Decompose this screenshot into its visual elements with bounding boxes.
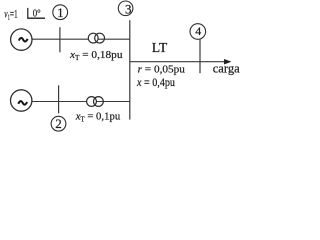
bus bar node 3 (129, 20, 131, 119)
bus bar node 1 (59, 27, 61, 52)
svg-text:3: 3 (125, 1, 132, 16)
svg-text:LT: LT (152, 41, 168, 56)
generator G1 circle (11, 29, 32, 50)
svg-text:r = 0,05pu: r = 0,05pu (138, 64, 186, 76)
svg-text:x = 0,4pu: x = 0,4pu (136, 77, 175, 89)
svg-text:v1=1: v1=1 (4, 9, 18, 22)
transformer T2 (87, 97, 97, 107)
svg-text:2: 2 (55, 116, 62, 131)
angle symbol vertical bar (27, 8, 29, 18)
generator G2 circle (11, 90, 32, 111)
wire bottom machine to bus 3 (32, 101, 130, 103)
svg-text:4: 4 (195, 24, 201, 38)
node label 4 (190, 24, 206, 40)
wire top machine to bus 3 (32, 38, 130, 40)
bus bar node 4 (199, 39, 201, 73)
generator G2 sine symbol (18, 101, 27, 105)
node label 1 (53, 5, 68, 20)
generator G1 sine symbol (19, 38, 28, 42)
wire LT line bus 3 to load (130, 61, 226, 63)
svg-text:1: 1 (57, 5, 64, 20)
transformer T1 (88, 33, 98, 43)
angle symbol underline (27, 17, 45, 19)
svg-text:carga: carga (213, 60, 240, 75)
node label 3 (118, 1, 133, 16)
arrowhead carga (224, 59, 231, 64)
bus bar node 2 (58, 85, 60, 113)
node label 2 (51, 116, 66, 131)
svg-text:0°: 0° (33, 9, 41, 20)
